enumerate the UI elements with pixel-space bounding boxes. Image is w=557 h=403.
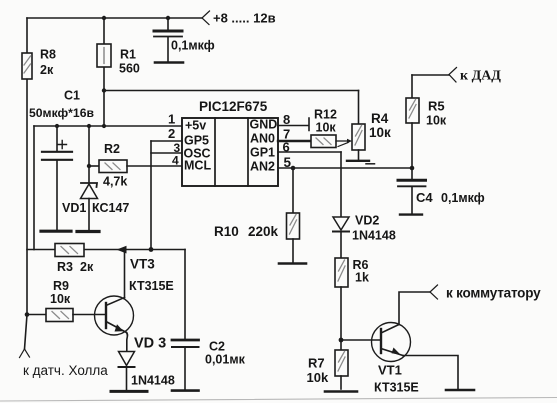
svg-text:R4: R4	[371, 111, 389, 126]
pin 5 wire	[278, 167, 412, 169]
svg-text:R5: R5	[428, 99, 445, 114]
svg-text:R1: R1	[120, 48, 136, 62]
svg-text:+8 ..... 12в: +8 ..... 12в	[213, 11, 276, 26]
wire R1 branch	[103, 18, 105, 126]
svg-text:1: 1	[168, 112, 175, 127]
wire GP5 net vertical	[150, 141, 152, 250]
svg-text:2к: 2к	[40, 63, 54, 77]
pin 6 wire	[278, 151, 341, 153]
svg-text:10k: 10k	[307, 370, 329, 385]
svg-text:10к: 10к	[316, 121, 337, 135]
IC U1 PIC12F675 box	[182, 118, 278, 186]
wire rail corner down to R3	[33, 126, 35, 250]
svg-text:к коммутатору: к коммутатору	[446, 286, 541, 301]
diode VD3	[119, 352, 135, 366]
connector to коммутатор chevron	[430, 285, 438, 299]
zener VD1	[88, 126, 90, 183]
node rail/R1	[102, 124, 106, 128]
svg-text:4: 4	[172, 154, 179, 168]
wire VT3 collector	[124, 250, 126, 298]
svg-text:R10: R10	[214, 224, 239, 239]
svg-text:0,1мкф: 0,1мкф	[171, 39, 215, 53]
capacitor C4	[411, 168, 413, 179]
svg-text:10к: 10к	[369, 125, 391, 140]
wire VT1 base	[341, 339, 381, 341]
svg-text:MCL: MCL	[184, 159, 211, 173]
ground VT1 emitter	[446, 389, 474, 392]
connector к датч. Холла chevron	[20, 349, 30, 358]
resistor R12	[311, 135, 336, 148]
capacitor C2	[172, 339, 199, 342]
svg-text:50мкф*16в: 50мкф*16в	[29, 106, 94, 120]
wire R3 row	[27, 249, 185, 251]
pin 3 wire	[151, 152, 182, 154]
svg-text:R7: R7	[308, 356, 325, 371]
svg-text:VD 3: VD 3	[134, 336, 166, 352]
svg-text:0,01мк: 0,01мк	[205, 353, 246, 367]
node top rail / R1	[102, 16, 106, 20]
node pin5/C4/R5	[410, 166, 415, 171]
svg-text:к ДАД: к ДАД	[460, 69, 501, 84]
capacitor C1	[56, 126, 58, 151]
svg-text:к датч. Холла: к датч. Холла	[23, 363, 108, 378]
svg-text:VD2: VD2	[355, 214, 379, 228]
ground R7	[325, 390, 357, 393]
node top rail / C0.1	[166, 16, 170, 20]
resistor R9	[27, 314, 46, 316]
node VT3 collector (arrow)	[117, 246, 127, 254]
svg-text:2: 2	[168, 126, 175, 141]
svg-text:AN2: AN2	[250, 160, 275, 174]
scan crease bottom	[0, 398, 557, 402]
node rail/C1	[55, 124, 59, 128]
svg-text:5: 5	[284, 155, 292, 170]
svg-text:VT3: VT3	[130, 257, 155, 272]
node R6/R7/base VT1	[339, 338, 344, 343]
wire VT1 collector to connector	[399, 292, 430, 325]
node R9 tap	[25, 312, 30, 317]
resistor R10	[292, 168, 294, 213]
svg-text:C2: C2	[209, 340, 225, 354]
wire top +V rail	[27, 17, 202, 19]
ground C2	[172, 389, 199, 392]
node pin5/R10	[291, 166, 296, 171]
svg-text:4,7k: 4,7k	[103, 175, 127, 189]
node rail/VD1	[87, 124, 91, 128]
wire left vertical (R8 branch)	[25, 18, 28, 349]
svg-text:C4: C4	[416, 190, 433, 205]
resistor R5	[412, 74, 449, 76]
svg-text:+5v: +5v	[185, 119, 206, 133]
pin 8 wire	[278, 118, 309, 131]
pin 7 wire	[278, 140, 311, 142]
svg-text:220k: 220k	[248, 224, 279, 239]
svg-text:1k: 1k	[355, 271, 369, 285]
svg-text:AN0: AN0	[250, 132, 275, 146]
resistor R8	[22, 53, 32, 79]
svg-text:1N4148: 1N4148	[131, 374, 175, 388]
svg-text:1N4148: 1N4148	[352, 229, 396, 243]
svg-text:КТ315Е: КТ315Е	[129, 279, 174, 293]
svg-text:GND: GND	[250, 118, 278, 132]
connector +8..12V chevron	[202, 11, 210, 25]
resistor R7	[335, 350, 348, 376]
wire +5 feed to R4	[104, 90, 359, 92]
transistor VT1	[372, 323, 411, 362]
svg-text:8: 8	[283, 112, 290, 127]
wire C2 drop	[184, 250, 186, 340]
connector к ДАД chevron	[449, 68, 457, 83]
wire R2 to pin 4	[127, 165, 182, 167]
resistor R1	[97, 44, 111, 67]
svg-text:6: 6	[283, 140, 290, 155]
svg-text:VT1: VT1	[378, 363, 402, 378]
svg-text:2к: 2к	[80, 260, 94, 274]
node GP5 vertical	[149, 247, 154, 252]
resistor R3	[55, 244, 84, 257]
svg-text:R8: R8	[40, 48, 56, 62]
svg-text:R2: R2	[104, 142, 120, 156]
svg-text:КТ315Е: КТ315Е	[374, 381, 419, 395]
svg-text:GP1: GP1	[250, 146, 275, 160]
resistor R2	[89, 165, 99, 167]
capacitor 0,1мкф top	[167, 18, 169, 29]
potentiometer R4	[358, 91, 360, 125]
svg-text:R12: R12	[314, 108, 337, 122]
wiper arrow R12 to R4	[336, 140, 347, 142]
wire R9 to VT3 base	[73, 314, 106, 316]
ground VD3	[111, 390, 147, 393]
svg-text:VD1: VD1	[62, 201, 86, 215]
node R1 bottom / +5 feed	[102, 88, 106, 92]
resistor R6	[335, 258, 348, 287]
ground R10	[279, 262, 306, 265]
wire +5v rail to pin 1	[34, 125, 182, 127]
transistor VT3	[95, 296, 134, 335]
svg-text:PIC12F675: PIC12F675	[199, 99, 268, 114]
svg-text:КС147: КС147	[92, 201, 129, 215]
diode VD2	[340, 152, 342, 217]
svg-text:0,1мкф: 0,1мкф	[441, 191, 485, 205]
svg-text:R3: R3	[57, 260, 73, 274]
svg-text:C1: C1	[64, 89, 80, 103]
svg-text:560: 560	[119, 62, 140, 76]
pin 2 wire	[151, 140, 182, 142]
wire VT1 emitter to ground	[403, 356, 458, 390]
svg-text:10к: 10к	[426, 114, 447, 128]
svg-text:R9: R9	[53, 279, 69, 293]
svg-text:10к: 10к	[50, 292, 71, 306]
svg-text:GP5: GP5	[184, 134, 209, 148]
